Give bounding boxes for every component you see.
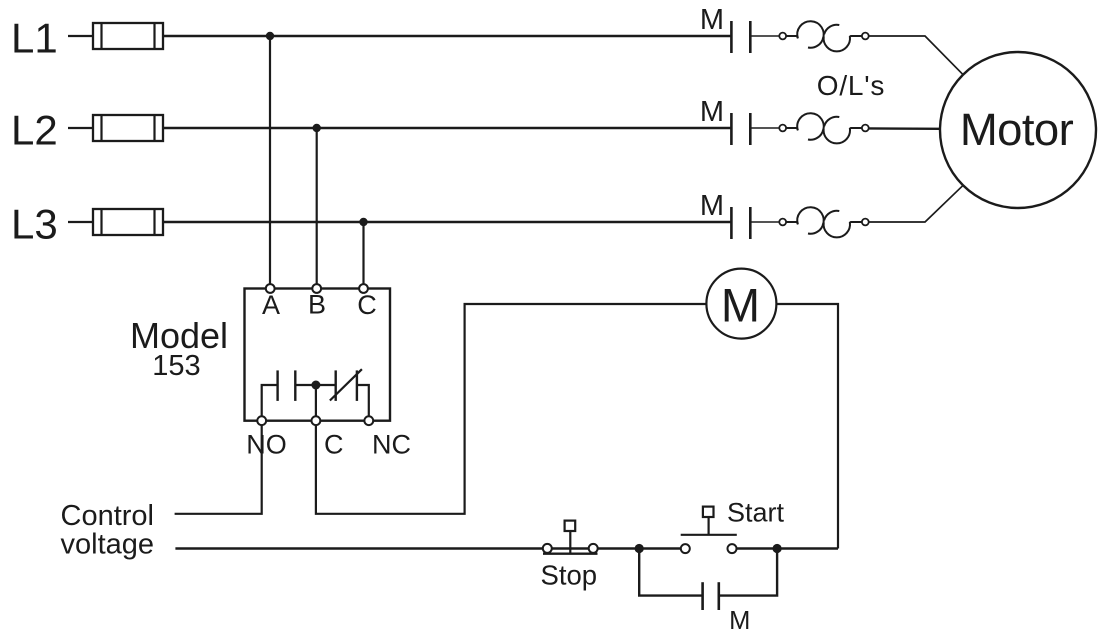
wire C to coil (left leg) xyxy=(316,304,707,514)
wire NO terminal riser xyxy=(262,385,278,421)
contactor contact M row 2 xyxy=(731,113,750,145)
label M (contactor contact row 1) xyxy=(700,4,724,36)
svg-text:A: A xyxy=(262,290,280,320)
svg-text:O/L's: O/L's xyxy=(817,70,885,101)
svg-text:voltage: voltage xyxy=(61,529,155,561)
wire fuse F2 to contact M xyxy=(163,127,731,130)
terminal NO xyxy=(257,416,266,425)
label L3 xyxy=(11,201,58,248)
svg-text:M: M xyxy=(721,279,760,332)
wire fuse F3 to contact M xyxy=(163,221,731,224)
wire OL3 to motor xyxy=(869,186,963,222)
label C (top) xyxy=(357,290,377,320)
overload terminal right row 1 xyxy=(862,33,869,40)
wire common drop to C terminal xyxy=(315,385,317,421)
pushbutton Start (NO) xyxy=(681,507,737,553)
overload heater OL3 xyxy=(786,207,862,237)
label A xyxy=(262,290,280,320)
svg-text:Start: Start xyxy=(727,498,785,528)
junction node L2 xyxy=(313,124,321,132)
svg-text:NO: NO xyxy=(246,430,287,460)
svg-text:C: C xyxy=(324,430,344,460)
fuse F1 xyxy=(93,23,163,49)
label M (holding contact) xyxy=(729,607,750,635)
svg-text:C: C xyxy=(357,290,377,320)
overload terminal left row 1 xyxy=(779,33,786,40)
fuse F3 xyxy=(93,209,163,235)
label C (bottom) xyxy=(324,430,344,460)
pushbutton Stop (NC) xyxy=(543,521,598,554)
wire fuse F1 to contact M xyxy=(163,35,731,38)
wire holding contact to node (right) xyxy=(719,549,777,596)
junction node L1 xyxy=(266,32,274,40)
junction node L3 xyxy=(359,218,367,226)
terminal B xyxy=(312,284,321,293)
svg-text:NC: NC xyxy=(372,430,411,460)
wire OL2 to motor xyxy=(869,127,941,130)
contactor contact M row 1 xyxy=(731,21,750,53)
label B xyxy=(308,290,326,320)
wire coil M to control line xyxy=(776,304,838,549)
label Control xyxy=(61,500,155,532)
svg-text:Control: Control xyxy=(61,500,155,532)
label Stop xyxy=(541,560,598,591)
wire common to NC contact xyxy=(316,384,336,386)
label M (contactor contact row 3) xyxy=(700,190,724,222)
motor M xyxy=(940,52,1096,208)
wire NO contact to common xyxy=(295,384,316,386)
coil M xyxy=(706,269,776,339)
overload terminal right row 3 xyxy=(862,219,869,226)
contactor contact M row 3 xyxy=(731,207,750,239)
svg-text:M: M xyxy=(700,96,724,128)
label O/L's xyxy=(817,70,885,101)
label NO xyxy=(246,430,287,460)
terminal C (top) xyxy=(359,284,368,293)
wire L2 drop to terminal B xyxy=(316,128,318,288)
label voltage xyxy=(61,529,155,561)
overload heater OL2 xyxy=(786,113,862,143)
terminal C (bottom) xyxy=(312,416,321,425)
wire to holding contact (left) xyxy=(639,549,702,596)
svg-text:L3: L3 xyxy=(11,201,58,248)
label L2 xyxy=(11,107,58,154)
overload heater OL1 xyxy=(786,21,862,51)
terminal NC xyxy=(364,416,373,425)
overload terminal right row 2 xyxy=(862,125,869,132)
fuse F2 xyxy=(93,115,163,141)
svg-text:M: M xyxy=(729,607,750,635)
svg-text:153: 153 xyxy=(152,350,200,382)
svg-text:L2: L2 xyxy=(11,107,58,154)
relay NO contact xyxy=(278,370,296,401)
wire NO to control voltage xyxy=(175,421,262,514)
svg-text:B: B xyxy=(308,290,326,320)
svg-text:M: M xyxy=(700,4,724,36)
relay NC contact xyxy=(330,369,362,401)
label M (contactor contact row 2) xyxy=(700,96,724,128)
overload terminal left row 3 xyxy=(779,219,786,226)
wire contact to overload row 1 xyxy=(750,35,779,37)
junction node start-coil xyxy=(773,544,782,553)
label 153 xyxy=(152,350,200,382)
svg-text:L1: L1 xyxy=(11,15,58,62)
holding contact M xyxy=(703,582,719,610)
wire L1 to fuse xyxy=(68,35,94,37)
wire control voltage line xyxy=(175,547,684,549)
wire L3 to fuse xyxy=(68,221,94,223)
label NC xyxy=(372,430,411,460)
wire contact to overload row 2 xyxy=(750,127,779,129)
terminal A xyxy=(266,284,275,293)
wire OL1 to motor xyxy=(869,36,963,74)
svg-text:Motor: Motor xyxy=(960,104,1074,155)
wire NC contact to NC terminal xyxy=(357,385,369,421)
wire L1 drop to terminal A xyxy=(269,36,271,288)
overload terminal left row 2 xyxy=(779,125,786,132)
junction node common xyxy=(311,381,320,390)
label Model xyxy=(130,315,228,356)
label Start xyxy=(727,498,785,528)
wire L3 drop to terminal C xyxy=(362,222,364,288)
svg-text:Stop: Stop xyxy=(541,560,598,591)
label L1 xyxy=(11,15,58,62)
junction node stop-start xyxy=(635,544,644,553)
Model 153 box xyxy=(245,289,391,421)
wire L2 to fuse xyxy=(68,127,94,129)
wire start to coil return xyxy=(732,547,838,549)
wire contact to overload row 3 xyxy=(750,221,779,223)
svg-text:M: M xyxy=(700,190,724,222)
